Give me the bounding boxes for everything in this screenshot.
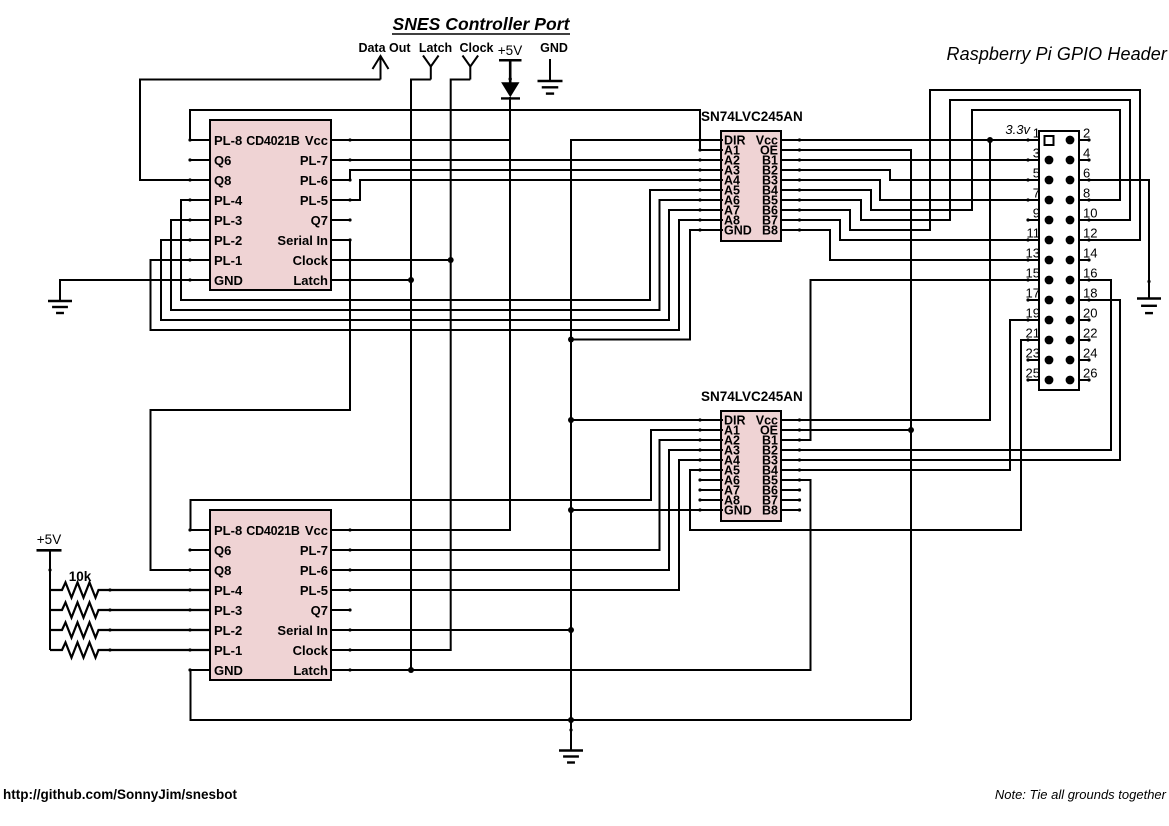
svg-text:Clock: Clock [459, 41, 493, 55]
svg-text:Clock: Clock [293, 253, 329, 268]
svg-text:26: 26 [1083, 366, 1097, 381]
port GND stem [549, 59, 551, 81]
label note [995, 787, 1167, 802]
stub Q7 U2 [331, 609, 351, 611]
resistor R1 10k row 590 [50, 582, 211, 597]
U2 left pin labels [214, 523, 243, 678]
wire GND U3 branch [571, 230, 723, 340]
svg-text:PL-1: PL-1 [214, 253, 242, 268]
svg-text:GND: GND [214, 663, 243, 678]
IC U1 CD4021B body [210, 120, 331, 290]
svg-text:1: 1 [1033, 126, 1040, 141]
svg-text:CD4021B: CD4021B [246, 134, 300, 148]
label U4 SN74LVC245AN [701, 389, 803, 404]
stub Q6 U2 [189, 549, 211, 551]
label 10k [69, 569, 92, 584]
wire B3 U4 to pin18 [781, 300, 1120, 460]
label U3 SN74LVC245AN [701, 109, 803, 124]
svg-text:B8: B8 [762, 504, 778, 518]
svg-text:http://github.com/SonnyJim/sne: http://github.com/SonnyJim/snesbot [3, 787, 238, 802]
svg-text:2: 2 [1083, 126, 1090, 141]
label U2 CD4021B [246, 524, 300, 538]
title SNES Controller Port [393, 14, 571, 34]
wire B3 U3 to pin7 [781, 180, 1039, 200]
svg-text:SN74LVC245AN: SN74LVC245AN [701, 109, 803, 124]
header pin 1 square [1045, 136, 1054, 145]
wire Clock bus vertical [331, 80, 470, 651]
junction GND U4 [568, 507, 574, 513]
wire B5 U3 to pin10 [781, 100, 1130, 220]
IC U3 SN74LVC245AN body [721, 131, 781, 241]
svg-text:Vcc: Vcc [305, 523, 328, 538]
svg-text:Data Out: Data Out [358, 41, 411, 55]
svg-text:Q6: Q6 [214, 543, 231, 558]
svg-text:PL-2: PL-2 [214, 233, 242, 248]
wire B7 U3 to pin11 [781, 220, 1039, 240]
wire PL-7 U2 to A2 U4 [331, 440, 723, 550]
stub B8 U4 [781, 509, 800, 511]
resistor R2 10k row 610 [50, 602, 211, 617]
svg-text:15: 15 [1026, 266, 1040, 281]
svg-text:CD4021B: CD4021B [246, 524, 300, 538]
svg-text:Serial In: Serial In [277, 623, 328, 638]
svg-text:Q8: Q8 [214, 563, 231, 578]
svg-text:19: 19 [1026, 306, 1040, 321]
ground symbol bottom [559, 751, 583, 763]
stub A8 U4 [699, 499, 723, 501]
wire PL-6 U2 to A3 U4 [331, 450, 723, 570]
label +5V bottom [37, 532, 61, 547]
header left pin circles 3-25 [1045, 156, 1054, 385]
svg-text:Latch: Latch [293, 663, 328, 678]
svg-text:Latch: Latch [293, 273, 328, 288]
svg-text:PL-4: PL-4 [214, 583, 243, 598]
svg-text:10k: 10k [69, 569, 92, 584]
svg-text:PL-6: PL-6 [300, 173, 328, 188]
svg-text:Latch: Latch [419, 41, 452, 55]
svg-text:PL-8: PL-8 [214, 523, 242, 538]
svg-text:PL-6: PL-6 [300, 563, 328, 578]
svg-text:Raspberry Pi GPIO Header: Raspberry Pi GPIO Header [947, 44, 1168, 64]
U2 right pin labels [277, 523, 328, 678]
svg-text:PL-5: PL-5 [300, 583, 328, 598]
svg-text:24: 24 [1083, 346, 1097, 361]
svg-text:PL-2: PL-2 [214, 623, 242, 638]
svg-text:PL-1: PL-1 [214, 643, 242, 658]
svg-text:13: 13 [1026, 246, 1040, 261]
wire B6 U3 to pin12 [781, 90, 1140, 240]
svg-text:+5V: +5V [498, 43, 522, 58]
wire OE U4 branch [781, 429, 911, 431]
svg-text:Note: Tie all grounds together: Note: Tie all grounds together [995, 787, 1167, 802]
svg-text:Q7: Q7 [311, 213, 328, 228]
wire Q8 U1 to Data Out [140, 80, 381, 181]
port Data Out arrow [373, 56, 389, 80]
svg-text:3: 3 [1033, 146, 1040, 161]
wire PL-8 U1 to A1 U3 [190, 110, 723, 150]
svg-text:10: 10 [1083, 206, 1097, 221]
wire Latch bus to B5 U4 [331, 480, 811, 670]
wire A5 U4 to pin21 [690, 340, 1039, 530]
svg-text:Q6: Q6 [214, 153, 231, 168]
label Clock [459, 41, 493, 55]
svg-text:18: 18 [1083, 286, 1097, 301]
svg-text:4: 4 [1083, 146, 1090, 161]
header NC stubs left [1027, 220, 1039, 380]
svg-text:PL-8: PL-8 [214, 133, 242, 148]
power +5V top bar [499, 60, 522, 83]
wire pin6 to ground [1078, 180, 1151, 299]
wire B4 U4 to pin19 [781, 320, 1039, 470]
wire B2 U4 to pin16 [781, 280, 1111, 450]
svg-text:+5V: +5V [37, 532, 61, 547]
wire PL-7 U1 to A2 U3 [331, 159, 723, 161]
svg-text:21: 21 [1026, 326, 1040, 341]
wire Clock U1 branch [331, 259, 451, 261]
pin end ticks resistors [108, 588, 111, 651]
pin end ticks SN74 chips [698, 138, 801, 511]
svg-text:12: 12 [1083, 226, 1097, 241]
header odd pin numbers [1026, 126, 1040, 381]
label GND top [540, 41, 568, 55]
header even pin numbers [1083, 126, 1097, 381]
wire PL-8 U2 to A1 U4 [191, 430, 724, 530]
wire +5V rail [331, 97, 510, 530]
header NC stubs right [1078, 140, 1090, 380]
svg-text:5: 5 [1033, 166, 1040, 181]
wire 3.3v pin1 [781, 139, 1039, 141]
pin end ticks CD4021 chips [188, 138, 351, 671]
wire OE U3 to ground bus [781, 150, 911, 720]
junction ground bus [568, 717, 574, 723]
svg-text:Clock: Clock [293, 643, 329, 658]
label Data Out [358, 41, 411, 55]
wire Serial In U2 branch [331, 629, 571, 631]
stub Q6 U1 [189, 159, 211, 161]
header right pin circles 2-26 [1066, 136, 1075, 385]
svg-text:GND: GND [724, 224, 752, 238]
U3 left pin labels [724, 134, 752, 238]
svg-text:PL-7: PL-7 [300, 543, 328, 558]
stub B6 U4 [781, 489, 800, 491]
stub A6 U4 [699, 479, 723, 481]
svg-text:SNES Controller Port: SNES Controller Port [393, 14, 571, 34]
wire PL-5 U2 to A4 U4 [331, 460, 723, 590]
svg-text:9: 9 [1033, 206, 1040, 221]
GPIO header J1 outline [1039, 131, 1079, 390]
svg-text:Serial In: Serial In [277, 233, 328, 248]
wire ground stem bottom [569, 720, 572, 751]
title Raspberry Pi GPIO Header [947, 44, 1168, 64]
IC U2 CD4021B body [210, 510, 331, 680]
junction 3.3v [987, 137, 993, 143]
junction Clock U1 [448, 257, 454, 263]
svg-text:GND: GND [724, 504, 752, 518]
svg-text:SN74LVC245AN: SN74LVC245AN [701, 389, 803, 404]
svg-text:23: 23 [1026, 346, 1040, 361]
svg-text:Q7: Q7 [311, 603, 328, 618]
svg-text:16: 16 [1083, 266, 1097, 281]
wire ground bus bottom [191, 670, 912, 720]
junction OE U4 [908, 427, 914, 433]
svg-text:11: 11 [1027, 226, 1041, 241]
stub Q7 U1 [331, 219, 351, 221]
pin end ticks header [1026, 138, 1090, 381]
port Latch input pin [423, 56, 439, 80]
svg-text:25: 25 [1026, 366, 1040, 381]
wire DIR U4 branch [571, 419, 723, 421]
label url [3, 787, 238, 802]
svg-text:7: 7 [1033, 186, 1040, 201]
svg-text:17: 17 [1026, 286, 1040, 301]
svg-text:B8: B8 [762, 224, 778, 238]
diode D1 [501, 83, 520, 99]
svg-text:6: 6 [1083, 166, 1090, 181]
junction DIR U4 [568, 417, 574, 423]
wire Serial In U1 to Q8 U2 [151, 240, 351, 570]
svg-text:PL-3: PL-3 [214, 213, 242, 228]
svg-text:GND: GND [540, 41, 568, 55]
port GND symbol [538, 81, 563, 94]
wire PL-5 U1 to A4 U3 [331, 180, 723, 200]
svg-text:PL-4: PL-4 [214, 193, 243, 208]
junction Latch bus [408, 667, 414, 673]
junction Latch U1 [408, 277, 414, 283]
wire +5V resistor bus [48, 550, 51, 650]
junction GND U3 [568, 337, 574, 343]
svg-text:3.3v: 3.3v [1005, 122, 1031, 137]
wire GND U1 to ground [60, 280, 211, 301]
wire 3.3v to Vcc U4 [781, 140, 990, 420]
wire B1 U3 to pin3 [781, 159, 1039, 161]
label +5V top [498, 43, 522, 58]
resistor R3 10k row 630 [50, 622, 211, 637]
wire B1 U4 to pin15 [781, 280, 1039, 440]
wire Vcc U1 to +5V rail [331, 139, 510, 141]
label U1 CD4021B [246, 134, 300, 148]
IC U4 SN74LVC245AN body [721, 411, 781, 521]
svg-text:14: 14 [1083, 246, 1097, 261]
label Latch [419, 41, 452, 55]
wire Latch U1 branch [331, 279, 411, 281]
wire B8 U3 to pin13 [781, 230, 1039, 260]
svg-text:PL-7: PL-7 [300, 153, 328, 168]
svg-text:PL-3: PL-3 [214, 603, 242, 618]
stub B7 U4 [781, 499, 800, 501]
svg-text:22: 22 [1083, 326, 1097, 341]
wire B2 U3 to pin5 [781, 170, 1039, 180]
wire DIR U3 ground net [571, 140, 723, 720]
wire PL-1 U1 to A8 U3 [151, 220, 724, 330]
U1 right pin labels [277, 133, 328, 288]
power +5V bottom bar [37, 549, 62, 552]
wire Latch bus vertical [411, 80, 431, 671]
wire B4 U3 to pin8 [781, 110, 1120, 210]
svg-text:20: 20 [1083, 306, 1097, 321]
U1 left pin labels [214, 133, 243, 288]
svg-text:Q8: Q8 [214, 173, 231, 188]
wire PL-3 U1 to A6 U3 [171, 200, 723, 310]
ground symbol right [1137, 299, 1161, 314]
resistor R4 10k row 650 [50, 642, 211, 657]
svg-text:Vcc: Vcc [305, 133, 328, 148]
label 3.3v [1005, 122, 1031, 137]
wire PL-2 U1 to A7 U3 [161, 210, 723, 320]
U4 right pin labels [756, 414, 778, 518]
svg-text:GND: GND [214, 273, 243, 288]
stub A7 U4 [699, 489, 723, 491]
title underline [392, 33, 570, 35]
wire PL-4 U1 to A5 U3 [181, 190, 723, 300]
junction Serial In U2 [568, 627, 574, 633]
ground symbol left [48, 301, 72, 313]
U4 left pin labels [724, 414, 752, 518]
svg-text:PL-5: PL-5 [300, 193, 328, 208]
svg-text:8: 8 [1083, 186, 1090, 201]
U3 right pin labels [756, 134, 778, 238]
wire GND U4 branch [571, 509, 723, 511]
port Clock input pin [463, 56, 479, 80]
wire PL-6 U1 to A3 U3 [331, 170, 723, 180]
